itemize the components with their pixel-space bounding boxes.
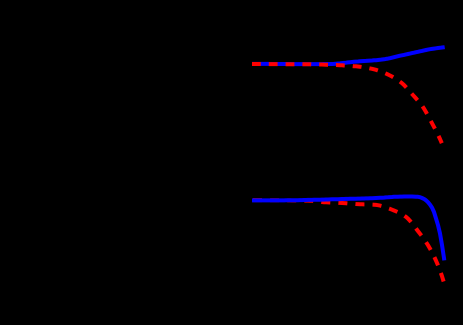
bottom panel red dashed curve xyxy=(252,200,444,283)
top panel red dashed curve xyxy=(252,64,442,143)
top panel blue solid curve xyxy=(252,47,445,64)
bottom panel blue solid curve xyxy=(252,197,444,261)
